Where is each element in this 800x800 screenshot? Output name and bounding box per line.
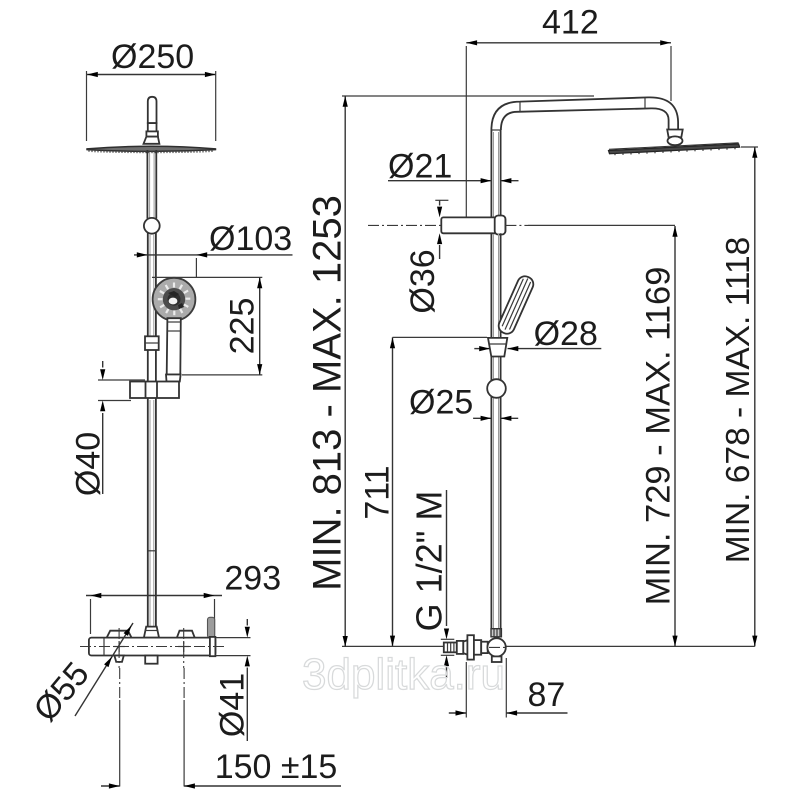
svg-text:87: 87	[528, 676, 566, 714]
svg-text:MIN. 813 - MAX. 1253: MIN. 813 - MAX. 1253	[306, 195, 350, 591]
svg-text:MIN. 729 - MAX. 1169: MIN. 729 - MAX. 1169	[640, 267, 678, 606]
svg-text:Ø21: Ø21	[388, 148, 452, 186]
svg-text:MIN. 678 - MAX. 1118: MIN. 678 - MAX. 1118	[720, 237, 757, 563]
svg-text:150 ±15: 150 ±15	[215, 748, 338, 786]
svg-text:711: 711	[359, 465, 397, 519]
svg-text:412: 412	[542, 4, 599, 42]
svg-text:G 1/2" M: G 1/2" M	[409, 491, 450, 632]
svg-text:293: 293	[224, 559, 281, 597]
svg-text:Ø250: Ø250	[111, 38, 194, 76]
svg-text:Ø36: Ø36	[404, 249, 442, 313]
svg-text:3dplitka.ru: 3dplitka.ru	[302, 650, 505, 699]
svg-text:Ø40: Ø40	[70, 432, 108, 496]
svg-text:Ø103: Ø103	[209, 220, 292, 258]
svg-text:Ø25: Ø25	[409, 384, 473, 422]
svg-text:Ø41: Ø41	[214, 673, 252, 737]
svg-text:225: 225	[224, 298, 262, 355]
svg-text:Ø28: Ø28	[534, 315, 598, 353]
